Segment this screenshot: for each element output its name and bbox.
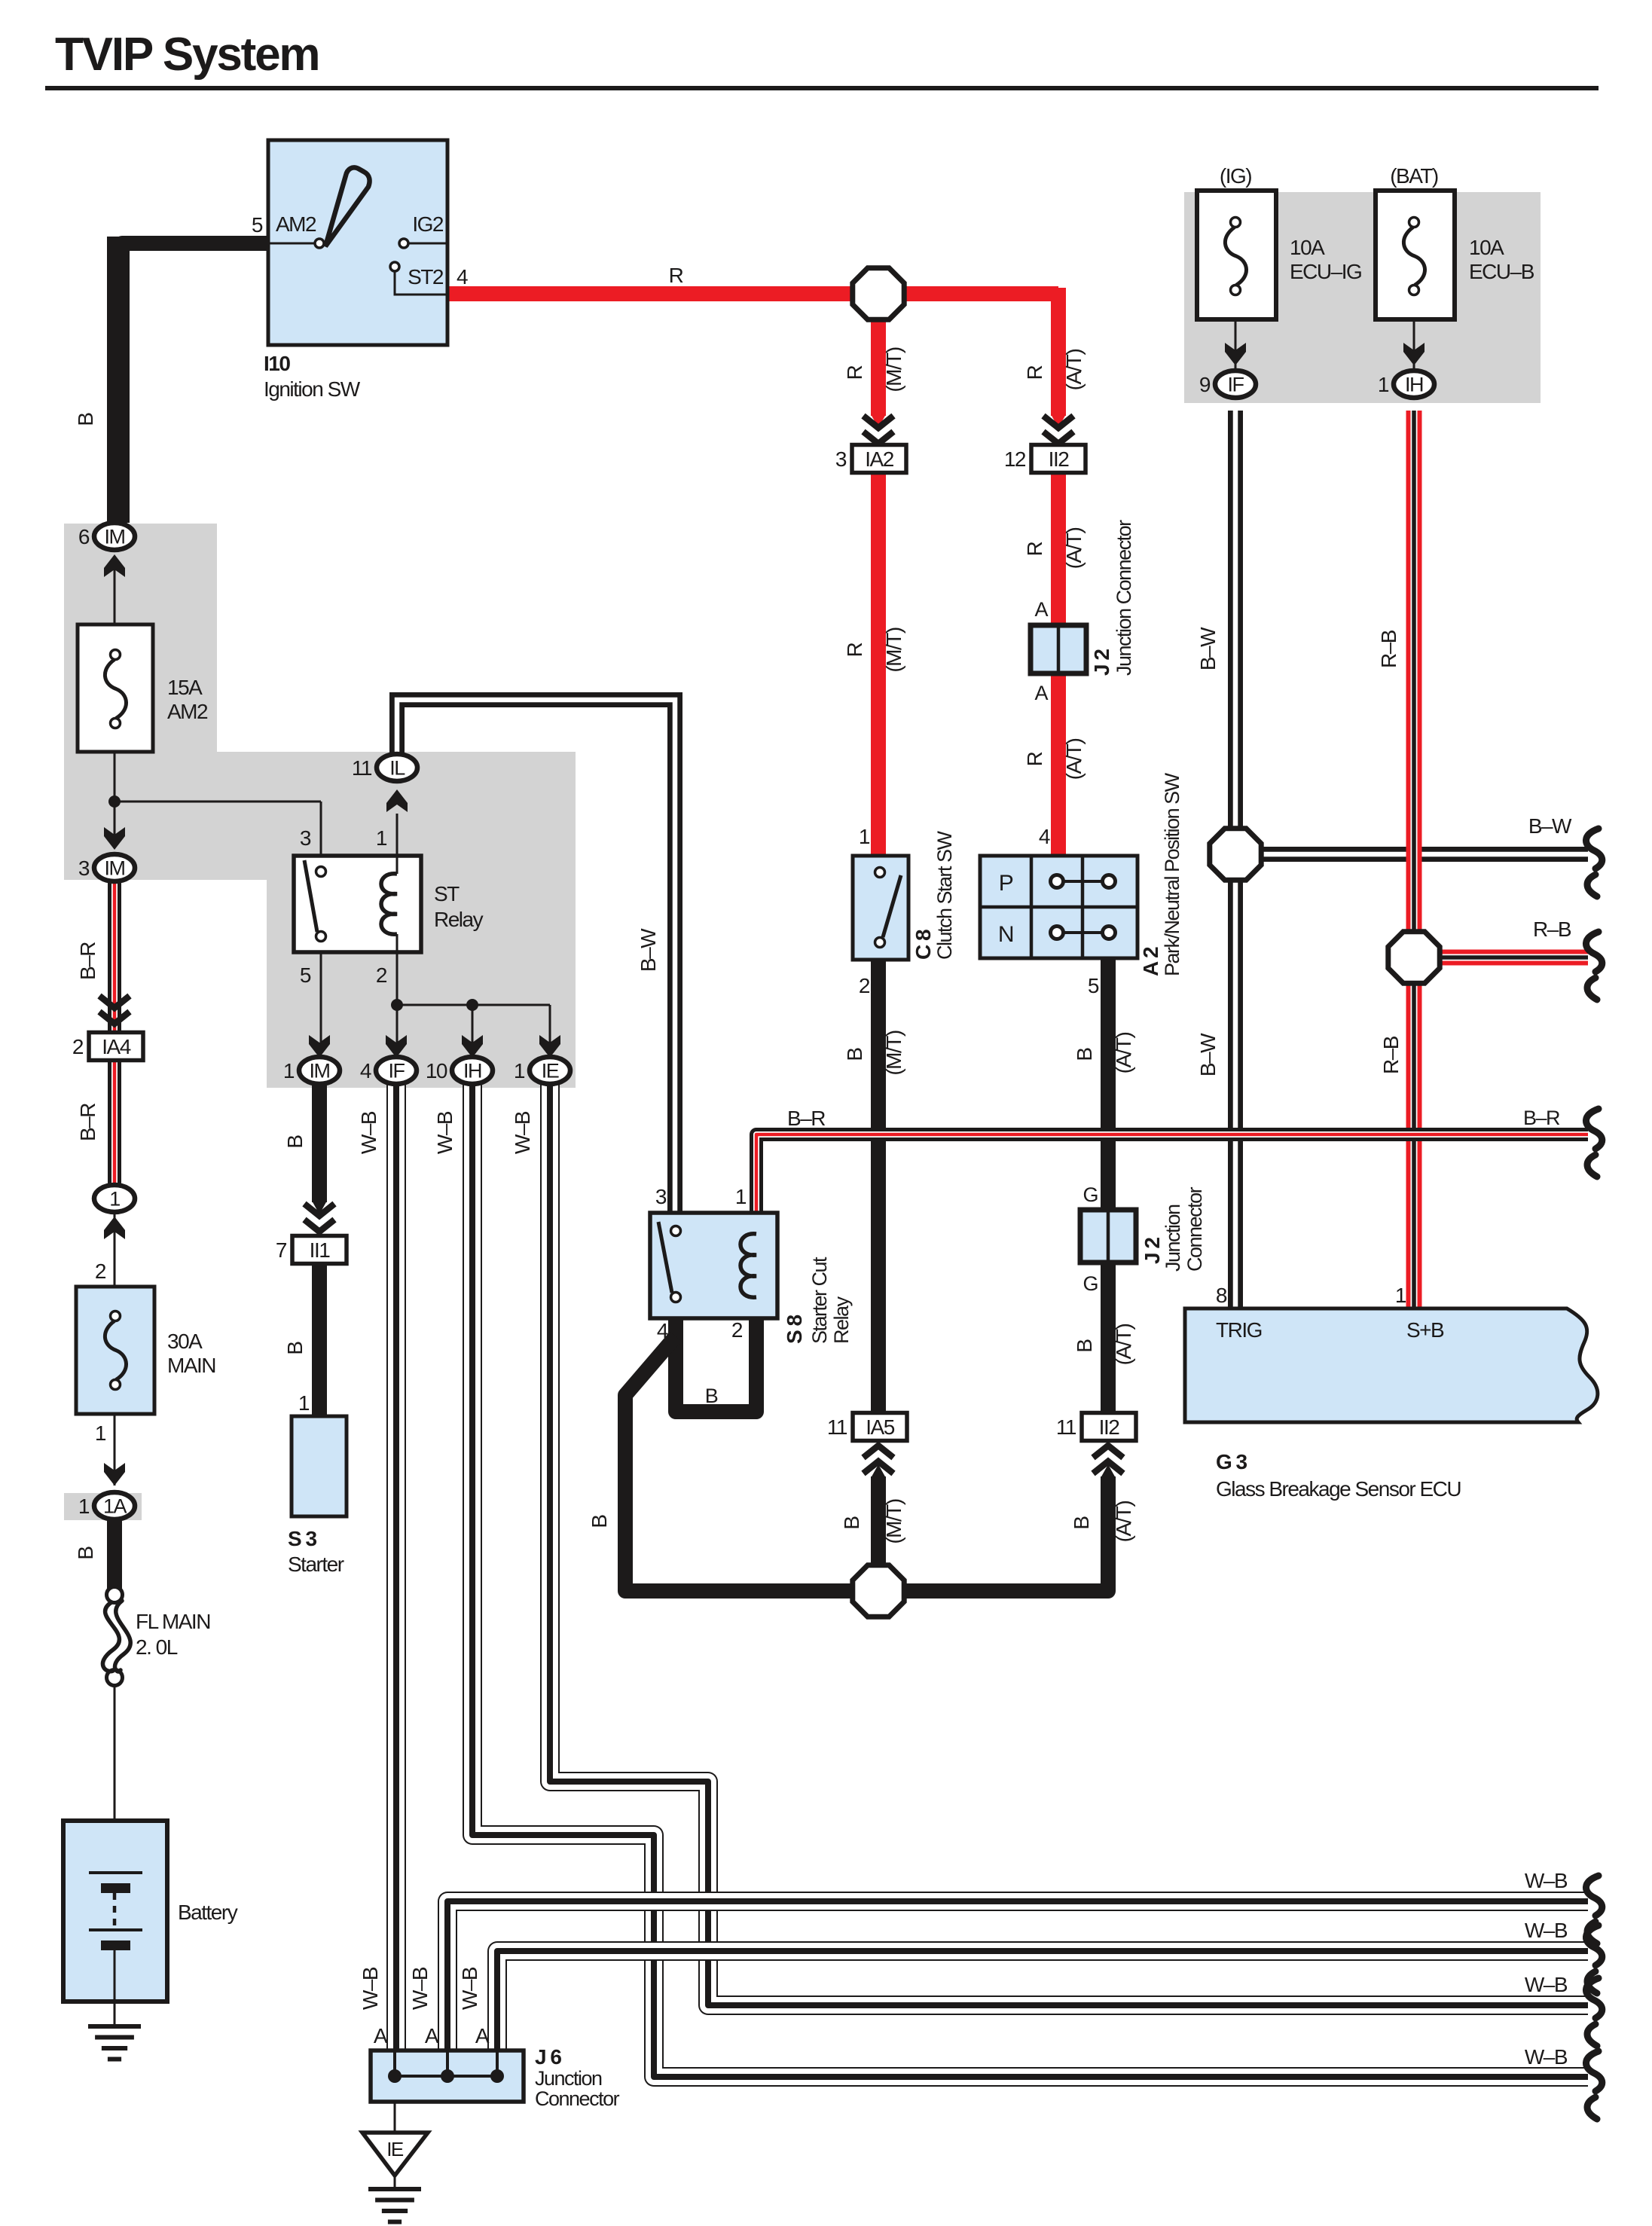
double chevron into II2 [1043,416,1073,428]
node IM (1) [299,1057,340,1084]
junction dot below 15A AM2 [108,795,121,808]
double chevron up into IA5 [863,1461,893,1473]
fuse 10A ECU-B box [1376,191,1455,319]
wire W-B IF oval down to J6 [386,1084,406,2064]
svg-text:2: 2 [95,1260,106,1283]
continuation curl W-B 2 [1586,1925,1602,1993]
wire thin IM6 to 15A AM2 fuse [114,563,116,624]
battery plates [89,1871,142,1874]
svg-text:ECU–IG: ECU–IG [1290,260,1361,283]
node 1A oval [94,1492,135,1519]
svg-text:B–R: B–R [1523,1107,1560,1129]
continuation curl B-W [1586,829,1602,896]
arrow down into IF fuse oval [1225,343,1246,365]
svg-text:Clutch Start SW: Clutch Start SW [933,830,956,960]
svg-text:(M/T): (M/T) [882,1031,905,1076]
svg-text:3: 3 [78,857,90,880]
node IL (11) [377,754,417,781]
svg-text:(M/T): (M/T) [882,347,905,392]
svg-text:R–B: R–B [1533,918,1571,941]
svg-text:W–B: W–B [1525,1869,1568,1892]
connector II2 (bottom) [1082,1413,1136,1441]
svg-text:AM2: AM2 [167,700,208,723]
node IH (10) [452,1057,493,1084]
ST relay coil [381,874,397,934]
svg-text:(A/T): (A/T) [1062,738,1086,780]
wire B-R from Starter-Cut relay pin1 to right continuation [756,1134,1588,1216]
svg-text:W–B: W–B [359,1967,382,2010]
junction connector J2 (upper) [1031,625,1086,673]
wire W-B IH oval down, jog right, to right continuation [472,1084,1588,2077]
svg-text:S+B: S+B [1406,1318,1444,1342]
svg-text:J 2: J 2 [1090,649,1113,676]
svg-text:B–R: B–R [76,942,99,980]
arrow down into IF [386,1035,407,1058]
svg-text:(IG): (IG) [1220,164,1251,188]
svg-text:8: 8 [1216,1284,1227,1307]
svg-text:10A: 10A [1290,236,1325,259]
svg-text:A 2: A 2 [1139,947,1162,976]
svg-text:B: B [74,1547,97,1560]
wire thin ST relay pin2 to junction dots and IF IH IE ovals [396,952,398,1058]
continuation curl W-B 4 [1586,2051,1602,2119]
ground symbol below IE [368,2187,421,2191]
svg-text:11: 11 [352,756,372,780]
connector IA2 [852,445,906,473]
svg-text:9: 9 [1199,373,1211,396]
ST relay switch contacts [316,867,326,877]
svg-text:W–B: W–B [1525,2045,1568,2069]
starter S3 box [292,1416,347,1516]
svg-text:IM: IM [105,526,125,548]
svg-text:W–B: W–B [357,1111,380,1154]
svg-text:II2: II2 [1049,447,1070,471]
svg-text:3: 3 [835,447,847,471]
svg-text:10A: 10A [1469,236,1504,259]
fuse 15A AM2 box [78,624,153,752]
svg-text:J 6: J 6 [535,2045,561,2069]
svg-text:W–B: W–B [1525,1973,1568,1996]
svg-text:G: G [1083,1272,1098,1295]
svg-text:W–B: W–B [433,1111,457,1154]
svg-text:2. 0L: 2. 0L [136,1635,178,1659]
wire B 1A to fusible link [107,1519,122,1589]
svg-text:P: P [999,871,1013,896]
fusible link FL MAIN 2.0L [107,1587,123,1603]
double chevron up into II2 bottom [1093,1461,1123,1473]
svg-text:6: 6 [78,525,90,548]
svg-text:ST2: ST2 [408,265,444,289]
wire W-B from J6 up and right continuation (fourth) [497,1951,1588,2064]
svg-text:Junction Connector: Junction Connector [1113,520,1135,676]
svg-text:IF: IF [1228,374,1244,396]
svg-text:IM: IM [105,857,125,880]
svg-text:W–B: W–B [408,1967,432,2010]
wire thin ECU-B fuse to IH oval [1413,319,1415,371]
svg-text:IG2: IG2 [412,212,444,236]
gray harness region (left column + relay block) [64,524,576,1088]
wire R (M/T) IA2 to Clutch Start SW pin 1 [871,452,886,856]
svg-text:B: B [840,1516,863,1530]
svg-text:1: 1 [78,1495,90,1518]
svg-text:1A: 1A [103,1495,127,1518]
svg-text:4: 4 [457,265,468,289]
svg-text:A: A [1034,682,1048,704]
svg-text:2: 2 [731,1318,743,1342]
svg-text:4: 4 [657,1319,668,1342]
svg-text:R–B: R–B [1379,1036,1403,1074]
wire thin 15A AM2 to junction and IM3 [114,752,116,844]
wire R (A/T) down to II2 [1051,288,1066,416]
junction octagon on B-W wire [1210,829,1261,880]
svg-text:11: 11 [827,1415,847,1439]
svg-text:ST: ST [434,882,460,905]
arrow up into IM6 [104,554,125,577]
svg-text:AM2: AM2 [276,212,316,236]
svg-text:W–B: W–B [458,1967,481,2010]
svg-text:R: R [1023,752,1046,766]
svg-text:(A/T): (A/T) [1112,1501,1135,1542]
wire B-R IA4 down to connector 1 [108,1053,121,1185]
svg-text:1: 1 [298,1391,310,1415]
wire W-B IE oval down, jog right, to right continuation [550,1084,1588,2005]
wire B Clutch Start SW pin2 down to IA5 [871,958,886,1415]
continuation curl W-B 1 [1586,1876,1602,1944]
svg-text:R: R [1023,542,1046,556]
svg-text:10: 10 [426,1059,447,1082]
svg-text:R: R [843,365,866,380]
wire thin connector1 to 30A MAIN fuse [114,1212,116,1287]
Glass Breakage Sensor ECU G3 box [1185,1308,1598,1422]
svg-text:Park/Neutral Position SW: Park/Neutral Position SW [1161,772,1183,976]
svg-text:5: 5 [252,213,263,237]
svg-text:11: 11 [1056,1415,1076,1439]
wire B ignition AM2 to IM6 [122,243,268,523]
junction octagon on R wire [853,268,904,319]
wire thin 30A MAIN to 1A oval [114,1414,116,1486]
svg-text:IA5: IA5 [866,1415,894,1439]
wire thin junction to ST relay pin 3 [115,801,321,803]
svg-text:2: 2 [859,974,870,997]
wire B octagon to II2 (A/T) [878,1476,1108,1591]
svg-text:W–B: W–B [511,1111,534,1154]
node IM (3) [94,854,135,881]
junction octagon on B wire (bottom) [853,1565,904,1617]
svg-text:12: 12 [1004,447,1026,471]
continuation curl R-B [1586,932,1602,1000]
svg-text:IF: IF [389,1060,405,1082]
wire W-B from J6 up and right continuation (third) [447,1901,1588,2064]
junction connector J6 [371,2050,524,2102]
wire B (A/T) J2 to II2 [1101,1260,1116,1415]
svg-text:1: 1 [735,1185,747,1208]
svg-text:1: 1 [1378,373,1389,396]
svg-text:II2: II2 [1099,1415,1120,1439]
svg-text:G 3: G 3 [1216,1450,1247,1473]
svg-text:B–R: B–R [76,1104,99,1141]
S8 coil [740,1234,756,1297]
svg-text:1: 1 [514,1059,525,1082]
svg-text:(A/T): (A/T) [1062,349,1086,390]
arrow down into IE [539,1035,560,1058]
svg-text:1: 1 [109,1188,120,1211]
fuse 10A ECU-IG box [1197,191,1276,319]
gray band at connector 1A [64,1493,142,1520]
svg-text:S 3: S 3 [288,1527,316,1550]
svg-text:A: A [374,2024,388,2047]
wire thin IL to ST relay pin 1 [396,814,398,856]
svg-text:2: 2 [72,1035,84,1058]
wire R from ignition ST2 to junction octagon and down to IA2 (M/T) [447,286,1058,301]
wire thin battery internal [114,1821,116,1873]
ground IE triangle [362,2133,428,2176]
svg-text:Connector: Connector [535,2087,620,2110]
svg-text:4: 4 [360,1059,371,1082]
svg-text:Relay: Relay [830,1296,853,1344]
junction octagon on R-B wire [1388,932,1440,983]
svg-text:IA4: IA4 [102,1035,130,1058]
svg-text:IM: IM [310,1060,330,1082]
svg-text:B: B [283,1135,307,1149]
fuse 30A MAIN box [76,1287,154,1414]
arrow up into IL [386,789,408,812]
svg-text:3: 3 [655,1185,667,1208]
svg-text:Connector: Connector [1183,1186,1206,1272]
svg-text:B: B [705,1385,718,1407]
arrow down into 1A [104,1463,125,1486]
svg-text:R: R [1023,365,1046,380]
junction dot ST relay pin2 branch 1 [391,999,403,1011]
svg-text:(M/T): (M/T) [882,627,905,673]
node IM (6) [94,523,135,550]
connector II1 [292,1236,347,1264]
wire B IA5 to junction octagon [871,1476,886,1591]
svg-text:N: N [998,922,1013,947]
arrow up into connector 1 [104,1217,125,1239]
svg-text:B: B [74,413,97,426]
ignition ST2 contact [390,262,399,271]
svg-text:Starter: Starter [288,1553,344,1576]
svg-text:B–W: B–W [1528,814,1572,838]
ignition switch I10 box [268,140,447,345]
svg-text:Glass Breakage Sensor ECU: Glass Breakage Sensor ECU [1216,1477,1461,1501]
svg-text:7: 7 [276,1238,287,1262]
svg-text:B–W: B–W [1196,627,1220,670]
svg-text:4: 4 [1039,825,1050,848]
svg-text:B: B [1073,1339,1096,1353]
svg-text:Junction: Junction [535,2067,602,2090]
svg-text:FL MAIN: FL MAIN [136,1610,210,1633]
battery ground symbol [88,2024,141,2029]
node IH (1) fuse output [1394,371,1434,398]
ignition IG2 contact [399,239,408,248]
svg-text:1: 1 [283,1059,295,1082]
svg-text:IH: IH [463,1060,481,1082]
double chevron into II1 [304,1204,334,1216]
svg-text:(A/T): (A/T) [1112,1032,1135,1073]
svg-text:C 8: C 8 [912,930,935,960]
svg-text:I10: I10 [264,352,290,375]
svg-text:(M/T): (M/T) [882,1499,905,1544]
ignition AM2 contact [268,243,315,245]
svg-text:Ignition SW: Ignition SW [264,377,361,401]
wire thin J6 to IE ground [394,2102,396,2133]
A2 contacts P row [1057,880,1109,883]
wire B (A/T) Park/Neutral pin5 to J2 [1101,958,1116,1211]
C8 switch contacts [875,868,885,878]
connector IA4 [89,1033,143,1061]
double chevron into IA2 [863,416,893,428]
svg-text:A: A [475,2024,490,2047]
svg-text:ECU–B: ECU–B [1469,260,1534,283]
svg-text:G: G [1083,1183,1098,1206]
svg-text:(A/T): (A/T) [1062,527,1086,569]
svg-text:A: A [425,2024,439,2047]
svg-text:R: R [669,264,683,287]
Clutch Start SW C8 box [853,856,908,960]
arrow down into IM1 [309,1035,330,1058]
svg-text:IL: IL [389,757,405,780]
junction connector J2 (lower) [1080,1210,1136,1263]
arrow down into IM3 [104,827,125,850]
continuation curl W-B 3 [1586,1978,1602,2046]
battery box [63,1821,167,2002]
Starter Cut relay S8 box [650,1213,777,1318]
node IF (9) fuse output [1215,371,1256,398]
wire R-B octagon to right continuation [1441,950,1588,966]
svg-text:A: A [1034,598,1048,621]
svg-text:B: B [843,1048,866,1061]
svg-text:B: B [588,1515,611,1528]
arrow down into IH fuse oval [1403,343,1425,365]
node IF (4) [376,1057,417,1084]
svg-text:Relay: Relay [434,908,484,931]
svg-text:II1: II1 [310,1238,331,1262]
S8 switch contacts [671,1226,681,1236]
wire B-W ECU-IG IF to octagon to G3 TRIG [1228,411,1243,1308]
svg-text:B: B [283,1342,307,1355]
gray region of ECU fuses (top right) [1184,192,1541,403]
svg-text:R: R [843,643,866,657]
svg-text:1: 1 [376,826,387,850]
A2 contacts N row [1057,931,1109,934]
svg-text:R–B: R–B [1377,630,1400,668]
wire B IM1 to II1 to Starter S3 [312,1083,327,1202]
svg-text:1: 1 [95,1421,106,1445]
svg-text:B–W: B–W [1196,1033,1220,1076]
connector II2 (top) [1031,445,1086,473]
wire thin battery to ground [114,2002,116,2026]
svg-text:IH: IH [1405,374,1423,396]
ignition key symbol [325,167,370,246]
svg-text:2: 2 [376,963,387,987]
svg-text:30A: 30A [167,1330,203,1353]
svg-text:Battery: Battery [178,1901,238,1924]
node IE (1) [530,1057,570,1084]
wire B-W octagon to right continuation [1208,847,1588,862]
ST relay box [294,856,421,952]
svg-text:5: 5 [1088,974,1099,997]
svg-text:(A/T): (A/T) [1112,1324,1135,1365]
continuation curl B-R [1586,1109,1602,1177]
arrow down into IH [462,1035,483,1058]
connector IA5 [853,1413,907,1441]
title rule [45,86,1599,90]
svg-text:S 8: S 8 [783,1315,806,1344]
svg-text:1: 1 [859,825,870,848]
svg-text:5: 5 [300,963,311,987]
svg-text:Junction: Junction [1162,1205,1184,1272]
svg-text:J 2: J 2 [1141,1238,1164,1264]
junction dot ST relay pin2 branch 2 [466,999,478,1011]
svg-text:B: B [1073,1048,1096,1061]
svg-text:MAIN: MAIN [167,1354,215,1377]
double chevron into IA4 [99,996,130,1008]
wire R-B ECU-B IH down to octagon and G3 S+B [1406,411,1422,1308]
svg-text:B–W: B–W [637,928,660,972]
wire R (A/T) II2 to J2 junction connector [1051,452,1066,630]
wire thin FL MAIN to battery [114,1685,116,1821]
wire B Starter-Cut relay pin4 to octagon, and U-link to pin2 [676,1318,756,1412]
svg-text:3: 3 [300,826,311,850]
svg-text:TRIG: TRIG [1216,1318,1262,1342]
svg-text:B–R: B–R [787,1107,825,1130]
node connector 1 oval [94,1185,135,1212]
wire B-W from IL up, over, and down into Starter-Cut relay pin3 [397,700,675,1213]
svg-text:IE: IE [542,1060,559,1082]
svg-text:15A: 15A [167,676,203,699]
svg-text:IA2: IA2 [865,447,893,471]
svg-text:B: B [1070,1516,1093,1530]
wire B-R IM3 to IA4 [108,881,121,1034]
wire thin ECU-IG fuse to IF oval [1235,319,1237,371]
wire R (A/T) J2 to Park/Neutral SW pin 4 [1051,667,1066,856]
svg-text:TVIP System: TVIP System [55,29,319,81]
svg-text:W–B: W–B [1525,1919,1568,1942]
svg-text:Starter Cut: Starter Cut [808,1257,831,1344]
Park/Neutral Position SW A2 box [980,856,1137,958]
svg-text:IE: IE [386,2138,404,2160]
svg-text:1: 1 [1395,1284,1406,1307]
svg-text:(BAT): (BAT) [1390,164,1438,188]
wire thin ST relay pin5 to IM1 oval [320,952,322,1058]
